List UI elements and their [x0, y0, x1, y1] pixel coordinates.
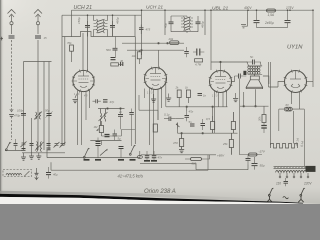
tube V1 UCH21 [72, 70, 95, 91]
bottom scan shadow above band [0, 191, 306, 203]
electrolytic C8 [285, 10, 291, 27]
core black blob right [306, 166, 316, 172]
bus: +65V line [140, 155, 248, 170]
svg-text:25k: 25k [222, 142, 228, 146]
node dots osc [158, 42, 160, 44]
capacitor C10 mains [284, 178, 289, 186]
resistor R6 [231, 112, 235, 134]
trimmer R4 [176, 123, 180, 129]
svg-text:UCH 21: UCH 21 [146, 5, 163, 11]
svg-text:150p: 150p [77, 17, 81, 24]
wire: vertical x71.5 [71, 10, 73, 37]
ground bar G7 [144, 160, 150, 162]
wire: AF section links [166, 106, 238, 134]
ground bar G8 [118, 159, 124, 161]
black bottom band [0, 194, 303, 204]
capacitor C37 100n [198, 94, 203, 96]
resistor R2 speaker left [235, 74, 247, 155]
wire: vertical x112.5 [112, 15, 114, 36]
resistor R9 horizontal [185, 155, 210, 161]
resistor R1 below IF2 [170, 41, 180, 45]
mains plug P1 [267, 196, 272, 202]
svg-text:1,5A: 1,5A [268, 13, 275, 17]
grid leak cluster under V1: capacitor C35 [93, 99, 101, 103]
ground G9 under V2 [151, 94, 156, 102]
capacitor C1 antenna1 series [9, 36, 15, 38]
fuse F1 top right [267, 9, 276, 12]
capacitor C2 antenna2 series [35, 36, 41, 38]
ground bar G5 [84, 159, 90, 161]
svg-text:15: 15 [44, 36, 48, 40]
svg-text:4,7M: 4,7M [195, 63, 202, 67]
ground bar G6 [95, 159, 101, 161]
svg-text:2x50μ: 2x50μ [264, 21, 274, 25]
power transformer T4 primary with core [274, 166, 316, 173]
wire: antenna1 lead [11, 24, 13, 34]
mains switch S2 [300, 188, 305, 196]
capacitor C5 IF2 left [169, 22, 174, 24]
capacitor C20 with plus [113, 130, 118, 141]
svg-text:1M: 1M [94, 125, 99, 129]
svg-text:100p: 100p [17, 109, 24, 113]
wire: antenna2 lead [37, 24, 39, 34]
heater winding T4 secondary [271, 62, 298, 148]
svg-text:47p: 47p [189, 110, 194, 114]
capacitor C29 mid [119, 147, 124, 158]
svg-text:-17V: -17V [259, 150, 266, 154]
svg-text:460p: 460p [201, 21, 205, 28]
tube V4 UY1N [285, 71, 307, 93]
earth clip E2 [10, 109, 13, 112]
svg-text:1 2 3: 1 2 3 [147, 92, 153, 95]
svg-text:0,5: 0,5 [206, 117, 210, 121]
coil L1 with trimmer [34, 112, 42, 120]
svg-text:2n: 2n [118, 110, 123, 114]
svg-text:400V: 400V [244, 6, 252, 10]
tube V1 rim pin ticks [72, 70, 95, 93]
node dot 400V [247, 9, 249, 11]
label ~ mains [283, 197, 289, 199]
trimmer CT3 [60, 142, 66, 148]
oscillator coil L3 detector area [99, 109, 108, 126]
capacitor C26 stack [96, 138, 101, 158]
capacitor C6 IF2 right [196, 22, 201, 24]
capacitor C15 [47, 144, 51, 146]
wire: vertical x44 [43, 62, 45, 151]
resistor R11 horizontal [111, 63, 123, 66]
resistor R15 vertical [177, 90, 181, 107]
coil L2 osc [37, 142, 38, 152]
mains switch S1 [268, 188, 273, 196]
tube V3 rim pin ticks [209, 70, 233, 94]
wire: vertical x135 [134, 15, 136, 36]
tube V4 pins [292, 92, 300, 110]
wire: grid cap lead tube V2 [158, 50, 160, 67]
cluster right of tube V1: capacitor C30 [113, 37, 118, 58]
resistor R7 cathode [180, 134, 184, 150]
switch S3 left [5, 142, 11, 151]
trimmer CT2 [54, 142, 60, 148]
svg-text:UY1N: UY1N [287, 45, 303, 51]
capacitor C24 [201, 119, 206, 130]
svg-text:20k: 20k [168, 37, 174, 41]
trimmer CT1 [21, 142, 27, 148]
resistor R18 right column [262, 106, 266, 122]
ground G1 [21, 153, 26, 160]
electrolytic C11 50u [252, 157, 258, 170]
capacitor C25 tone [246, 155, 251, 165]
wire: vertical x62 [61, 15, 63, 145]
svg-text:5n: 5n [189, 120, 193, 124]
capacitor C9 above output transformer [246, 60, 261, 65]
capacitor C23 0,05 [190, 124, 195, 126]
resistor R5 [211, 116, 215, 134]
capacitor C16 [14, 139, 18, 150]
oscillator section wires [122, 42, 184, 67]
capacitor C19 black [105, 135, 110, 137]
bus: bottom long line [51, 155, 208, 170]
resistor R17 under V2 [153, 124, 157, 132]
resistor R14 horizontal [195, 59, 203, 62]
capacitor C32 pair top [139, 25, 144, 35]
capacitor C40 oval [137, 151, 142, 159]
mains plug P2 [298, 196, 303, 202]
margin mark [1, 37, 4, 41]
wire: osc top line y43 [122, 42, 184, 44]
resistor R16 vertical [186, 90, 190, 103]
loop antenna dashed box [3, 170, 32, 177]
svg-text:40μ: 40μ [53, 173, 58, 177]
svg-text:475: 475 [146, 28, 151, 32]
antenna A2 [34, 10, 42, 25]
IF transformer T1 core [94, 15, 108, 36]
wire: IF2 verticals [165, 10, 205, 35]
svg-text:1n: 1n [203, 94, 207, 98]
svg-text:Orion 238 A: Orion 238 A [144, 189, 176, 195]
ground G3 [36, 153, 41, 159]
fuse F2 left of transformer [245, 153, 262, 156]
capacitor C28 47n [152, 151, 157, 160]
capacitor C38 det [129, 109, 134, 147]
svg-text:47p: 47p [110, 100, 115, 104]
wire: vertical x23.5 [23, 62, 25, 151]
capacitor C17 40u [46, 167, 51, 179]
antenna A1 [8, 10, 16, 25]
svg-text:UBL 21: UBL 21 [212, 6, 229, 12]
svg-text:10k: 10k [132, 54, 137, 58]
svg-text:5n: 5n [250, 55, 254, 59]
wire: field coil feed down [239, 79, 245, 155]
tube V3 pins [215, 91, 227, 133]
svg-text:500: 500 [192, 162, 197, 166]
wire: V4 plate to rail [269, 10, 314, 87]
svg-text:470p: 470p [14, 114, 21, 118]
svg-text:50p: 50p [45, 109, 50, 113]
tube V4 rim pin ticks [284, 70, 308, 94]
bus bottom-left y153 [22, 152, 65, 154]
capacitor C31 black [111, 58, 116, 60]
wire: V3 anode to transformer [211, 10, 269, 107]
capacitor C14 [30, 144, 34, 146]
svg-text:UCH 21: UCH 21 [74, 5, 93, 11]
capacitor C3 IF1 left [85, 21, 90, 37]
capacitor C22 47p [185, 111, 190, 121]
switch S4 [83, 148, 89, 158]
svg-text:220V: 220V [303, 182, 312, 186]
earth electrode E1 [35, 168, 39, 180]
wire: detector top bus [98, 108, 125, 110]
tube V2 rim pin ticks [144, 67, 168, 91]
svg-text:1 2 3: 1 2 3 [74, 93, 80, 96]
capacitor C12 ant coupling [21, 114, 26, 116]
capacitor C27 47n [145, 151, 150, 160]
wire: electrolytic commons [241, 10, 288, 28]
top rail IF1 [62, 14, 141, 16]
output transformer T3 winding mesh [248, 65, 263, 75]
tube V1 pins [78, 91, 90, 146]
svg-text:40: 40 [120, 59, 124, 63]
svg-text:50μ: 50μ [260, 164, 265, 168]
wire: x143 drop to tube2 [141, 10, 143, 55]
capacitor C39 black below R18 [261, 123, 267, 134]
ground G11 under V3 [233, 93, 238, 102]
potentiometer R3 volume [97, 121, 104, 136]
svg-text:470: 470 [173, 141, 178, 145]
svg-text:5μ: 5μ [118, 137, 122, 141]
tuning gang cluster row [21, 142, 66, 152]
svg-text:175V: 175V [286, 6, 294, 10]
top rail HT [72, 9, 314, 11]
svg-text:70k: 70k [67, 41, 72, 45]
capacitor C13 [46, 112, 53, 118]
wire: vertical x64.8 [64, 37, 66, 146]
wire: AVC return [139, 89, 158, 121]
wire: vertical x38 [37, 44, 39, 150]
tube V2 UCH21 [145, 68, 167, 107]
white strip under band [0, 197, 320, 204]
speaker LS1 [246, 74, 262, 88]
electrolytic C7 [254, 10, 260, 27]
ground bar G13 [151, 160, 157, 162]
IF2 core hatch [181, 17, 193, 31]
bus y150 left [5, 150, 22, 152]
svg-text:+65V: +65V [217, 153, 225, 157]
transformer terminal blob [243, 71, 246, 75]
ground G2 [29, 145, 34, 159]
IF transformer T2 assembly [165, 10, 205, 35]
dial lamp LP1 [279, 107, 305, 166]
svg-text:41~473,5 kc/s: 41~473,5 kc/s [118, 174, 144, 179]
wire: IF2 inner tops [171, 16, 198, 33]
svg-text:0,1μ: 0,1μ [164, 113, 170, 117]
wire: IF1 bottom with bump over tube leads [62, 32, 135, 37]
wire: detector cluster links [101, 130, 135, 146]
capacitor C33 osc [184, 47, 189, 57]
node dots rails [87, 9, 314, 16]
wire: vertical x31 [32, 118, 122, 145]
svg-text:110: 110 [276, 182, 281, 186]
svg-text:460p: 460p [116, 17, 120, 24]
left edge shadow [0, 0, 4, 204]
svg-text:1 2 3: 1 2 3 [212, 95, 218, 98]
wire: left column horizontal y62 [24, 61, 52, 63]
ground G14 under V1 pin [73, 95, 78, 103]
node dot 175V [289, 9, 291, 11]
capacitor C21 0,1u coupling [164, 117, 176, 122]
capacitor C18 [118, 109, 123, 130]
svg-text:20k: 20k [258, 116, 262, 122]
capacitor C34 vertical plates [193, 49, 204, 56]
wire: V3 right pin down [240, 92, 269, 107]
transformer taps [279, 173, 309, 178]
wire: osc line y50 [127, 49, 184, 51]
tube V2 pins [150, 88, 162, 155]
switch S6 [129, 145, 135, 155]
ground G4 under R7 [179, 150, 184, 153]
bus: common ground line y157.6 [47, 155, 140, 158]
switch S5 wiper [100, 149, 108, 156]
wire: tube V1 top leads [83, 33, 88, 72]
svg-text:47n: 47n [158, 156, 163, 160]
wire: vertical x49 [48, 62, 50, 151]
svg-text:500: 500 [106, 48, 111, 52]
resistor R13 vertical [137, 50, 141, 64]
resistor R10 osc grid [70, 45, 74, 62]
svg-text:40p: 40p [164, 23, 168, 28]
tube V3 UBL21 [210, 71, 232, 93]
capacitor C4 IF1 right [110, 21, 115, 37]
capacitor C41 vertical bars [121, 62, 123, 66]
resistor R8 right [229, 133, 233, 155]
ground G10 under V2 [166, 94, 171, 102]
wire: vertical x87.5 [87, 15, 89, 36]
wire: vertical x135.5 long [134, 37, 136, 145]
svg-text:2k: 2k [175, 86, 180, 90]
ground bar G12 [130, 159, 136, 161]
capacitor C36 black [103, 100, 108, 102]
